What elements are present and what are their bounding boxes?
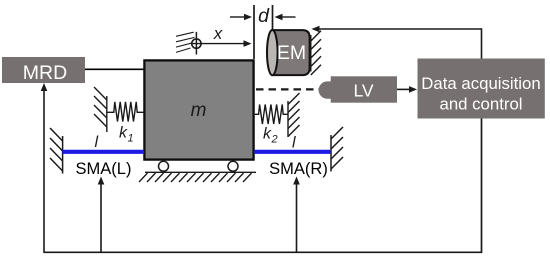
bottom bus wire xyxy=(44,251,482,253)
Data acquisition and control box xyxy=(418,59,545,119)
svg-text:d: d xyxy=(258,5,270,27)
d arrow left xyxy=(230,14,252,21)
spring k1 xyxy=(107,102,144,122)
feedback arrow to SMA(R) xyxy=(293,177,300,253)
svg-text:SMA(R): SMA(R) xyxy=(269,160,328,178)
wall anchor for k2 xyxy=(288,93,300,137)
electromagnet EM body xyxy=(272,30,309,75)
LV sensor nose xyxy=(319,81,340,98)
svg-text:and control: and control xyxy=(439,95,522,114)
roller left xyxy=(159,161,169,171)
MRD box xyxy=(2,57,85,84)
SMA right wall anchor xyxy=(331,127,343,172)
LV sensor body xyxy=(331,76,397,102)
d arrow right xyxy=(275,14,296,21)
feedback arrow to MRD xyxy=(41,83,48,253)
displacement arrow x xyxy=(192,24,252,47)
wire DAQ to bottom bus xyxy=(481,119,483,253)
SMA(L) wire xyxy=(63,150,144,154)
arrow LV to DAQ xyxy=(397,86,417,93)
displacement reference symbol xyxy=(176,32,201,55)
svg-text:2: 2 xyxy=(271,134,278,146)
dashed measurement line xyxy=(256,88,320,90)
svg-text:EM: EM xyxy=(277,42,306,64)
wall anchor for k1 xyxy=(94,87,107,132)
control line DAQ to EM xyxy=(312,26,482,59)
SMA(R) wire xyxy=(255,150,331,154)
label k1 xyxy=(119,125,134,145)
svg-text:l: l xyxy=(95,134,99,151)
svg-text:MRD: MRD xyxy=(23,62,67,84)
feedback arrow to SMA(L) xyxy=(98,177,105,253)
roller right xyxy=(228,161,238,171)
svg-text:1: 1 xyxy=(128,133,134,145)
ground under mass xyxy=(139,172,256,182)
spring k2 xyxy=(255,105,288,125)
svg-text:LV: LV xyxy=(353,81,373,101)
label k2 xyxy=(263,126,278,146)
d extension line (mass face) xyxy=(253,5,255,59)
d extension line (EM face) xyxy=(272,5,274,30)
svg-text:m: m xyxy=(191,100,207,121)
svg-text:l: l xyxy=(292,135,296,152)
EM left cap ellipse xyxy=(267,30,278,75)
svg-text:Data acquisition: Data acquisition xyxy=(421,74,540,93)
EM wall xyxy=(311,31,321,75)
svg-text:SMA(L): SMA(L) xyxy=(76,160,132,178)
wire MRD to mass xyxy=(85,68,144,70)
SMA left wall anchor xyxy=(50,128,63,174)
mass m xyxy=(144,60,253,159)
svg-text:x: x xyxy=(213,24,223,43)
